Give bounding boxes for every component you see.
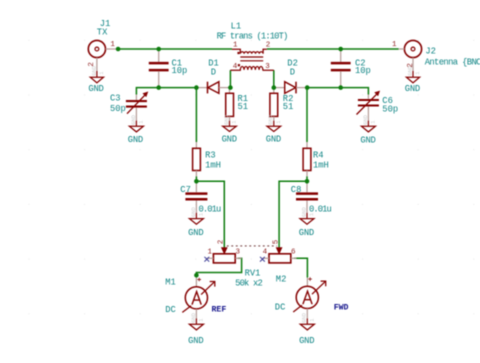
capacitor C7 0.01u <box>185 181 207 213</box>
meter M1 <box>182 275 215 318</box>
svg-text:GND: GND <box>224 115 230 125</box>
svg-text:1: 1 <box>208 248 213 256</box>
svg-text:GND: GND <box>407 66 413 76</box>
junction D1 anode / R1 / secondary pin 4 <box>228 85 233 90</box>
svg-text:1: 1 <box>415 71 421 74</box>
wire RV1 pin 6 to M2 plus terminal <box>294 258 307 277</box>
svg-text:1: 1 <box>110 41 115 49</box>
svg-text:1: 1 <box>232 121 238 124</box>
svg-text:1mH: 1mH <box>313 160 329 170</box>
junction C1 top <box>156 47 161 52</box>
inductor R4 1mH <box>303 142 311 176</box>
wire C3 up to node row then to D1 cathode node <box>136 88 196 95</box>
svg-text:1: 1 <box>138 121 144 124</box>
svg-text:C7: C7 <box>180 185 191 195</box>
svg-text:D: D <box>211 67 216 77</box>
variable capacitor C6 50p <box>357 91 380 120</box>
junction C2 top <box>338 47 343 52</box>
junction R3 / D1 cathode <box>194 85 199 90</box>
svg-text:DC: DC <box>165 305 176 315</box>
no-connect cross on RV1 pin 4 <box>260 257 265 262</box>
wire D2 cathode node to C2 to C6 bend <box>307 88 368 95</box>
ground at C7 <box>188 207 204 238</box>
svg-text:FWD: FWD <box>334 304 349 313</box>
ground at R2 <box>266 115 282 145</box>
svg-text:GND: GND <box>191 313 197 323</box>
inductor R3 1mH <box>193 142 201 176</box>
variable capacitor C3 50p <box>126 92 148 121</box>
svg-text:GND: GND <box>363 115 369 125</box>
svg-text:RV1: RV1 <box>245 269 261 279</box>
wire L1 primary pin 2 to J2 <box>267 48 399 50</box>
connector J1 TX (BNC) <box>88 40 118 71</box>
ground at J1 <box>88 66 105 94</box>
junction D2 anode / R2 / secondary pin 3 <box>272 85 277 90</box>
svg-text:51: 51 <box>238 102 249 112</box>
svg-text:1: 1 <box>370 121 376 124</box>
svg-text:L1: L1 <box>231 21 242 31</box>
capacitor C8 0.01u <box>296 181 318 213</box>
svg-text:GND: GND <box>91 66 97 76</box>
wire node to R4 <box>306 88 308 142</box>
svg-text:Antenna {BNC}: Antenna {BNC} <box>425 58 480 68</box>
resistor R2 51 <box>270 88 278 121</box>
meter M2 <box>293 277 326 318</box>
svg-text:1mH: 1mH <box>205 160 221 170</box>
wire L1 secondary pin 4 down to D1/R1 node <box>229 70 231 87</box>
svg-text:1: 1 <box>99 71 105 74</box>
junction D2 cathode / R4 <box>305 85 310 90</box>
svg-text:GND: GND <box>299 228 314 238</box>
svg-text:5: 5 <box>272 239 280 244</box>
potentiometer RV1 second gang <box>262 248 296 263</box>
svg-text:DC: DC <box>275 302 286 312</box>
svg-text:GND: GND <box>88 84 103 94</box>
svg-text:GND: GND <box>268 115 274 125</box>
transformer L1 RF trans (1:10T) <box>230 49 273 70</box>
svg-text:M2: M2 <box>276 274 287 284</box>
svg-text:GND: GND <box>131 115 137 125</box>
diode D1 <box>196 82 230 94</box>
svg-text:GND: GND <box>188 336 203 346</box>
svg-text:2: 2 <box>218 240 226 245</box>
svg-text:GND: GND <box>301 207 307 217</box>
svg-text:D: D <box>290 67 295 77</box>
svg-text:51: 51 <box>283 102 294 112</box>
ground at J2 <box>405 66 421 94</box>
svg-text:GND: GND <box>299 336 314 346</box>
svg-text:3: 3 <box>236 248 241 256</box>
svg-text:GND: GND <box>222 135 237 145</box>
wire L1 secondary pin 3 down to D2/R2 node <box>273 70 275 87</box>
svg-text:4: 4 <box>263 248 268 256</box>
svg-text:C8: C8 <box>291 185 302 195</box>
ground at C6 <box>360 115 376 145</box>
svg-text:GND: GND <box>191 207 197 217</box>
junction C1 bottom <box>156 85 161 90</box>
svg-text:1: 1 <box>309 213 315 216</box>
svg-text:R4: R4 <box>313 151 324 161</box>
svg-text:50p: 50p <box>110 104 126 114</box>
svg-text:50k x2: 50k x2 <box>235 278 262 288</box>
svg-text:4: 4 <box>233 63 238 71</box>
ground at C3 <box>128 115 145 145</box>
svg-text:1: 1 <box>309 319 315 322</box>
svg-text:1: 1 <box>276 121 282 124</box>
svg-text:1: 1 <box>392 41 397 49</box>
svg-text:GND: GND <box>405 84 420 94</box>
svg-text:REF: REF <box>212 306 227 315</box>
svg-text:GND: GND <box>266 135 281 145</box>
svg-text:J2: J2 <box>425 47 436 57</box>
svg-text:10p: 10p <box>355 66 371 76</box>
wire node to R3 <box>195 88 197 142</box>
wire R4 to C8 node <box>306 176 308 181</box>
svg-text:TX: TX <box>97 28 108 38</box>
wire C7 node to RV1 wiper pin 2 <box>196 181 224 248</box>
svg-text:R3: R3 <box>205 151 216 161</box>
svg-text:50p: 50p <box>382 105 398 115</box>
connector J2 Antenna (BNC) <box>399 40 422 71</box>
svg-text:M1: M1 <box>165 278 176 288</box>
ground at M1 <box>188 313 204 346</box>
svg-text:6: 6 <box>291 248 296 256</box>
diode D2 <box>274 82 307 94</box>
capacitor C1 10p <box>149 49 169 88</box>
svg-text:GND: GND <box>302 313 308 323</box>
wire R3 to C7 node <box>195 176 197 181</box>
junction C2 bottom <box>338 85 343 90</box>
wire RV1 pin 3 to M1 plus terminal <box>196 258 241 275</box>
capacitor C2 10p <box>331 49 351 88</box>
svg-text:GND: GND <box>360 135 375 145</box>
svg-text:10p: 10p <box>172 66 188 76</box>
svg-text:2: 2 <box>266 41 271 49</box>
svg-text:C3: C3 <box>110 93 121 103</box>
potentiometer RV1 first gang <box>207 248 242 263</box>
wire J1 to L1 primary pin 1 <box>118 48 232 50</box>
no-connect cross on RV1 pin 1 <box>204 257 209 262</box>
junction at J1 pin 1 <box>116 47 121 52</box>
ground at M2 <box>299 313 315 346</box>
wire C8 node to RV1 wiper pin 5 <box>279 181 307 248</box>
svg-text:GND: GND <box>128 135 143 145</box>
junction R3 / C7 / RV1 <box>194 179 199 184</box>
svg-text:1: 1 <box>198 213 204 216</box>
svg-text:1: 1 <box>233 41 238 49</box>
svg-text:1: 1 <box>198 319 204 322</box>
gang coupling dashed line <box>227 245 277 247</box>
svg-text:3: 3 <box>265 63 270 71</box>
junction R4 / C8 / RV1 <box>305 179 310 184</box>
svg-text:GND: GND <box>188 228 203 238</box>
ground at C8 <box>299 207 315 238</box>
junction M1 plus pin <box>194 273 199 278</box>
svg-text:RF trans (1:10T): RF trans (1:10T) <box>217 32 288 42</box>
resistor R1 51 <box>226 88 234 121</box>
ground at R1 <box>222 115 238 145</box>
